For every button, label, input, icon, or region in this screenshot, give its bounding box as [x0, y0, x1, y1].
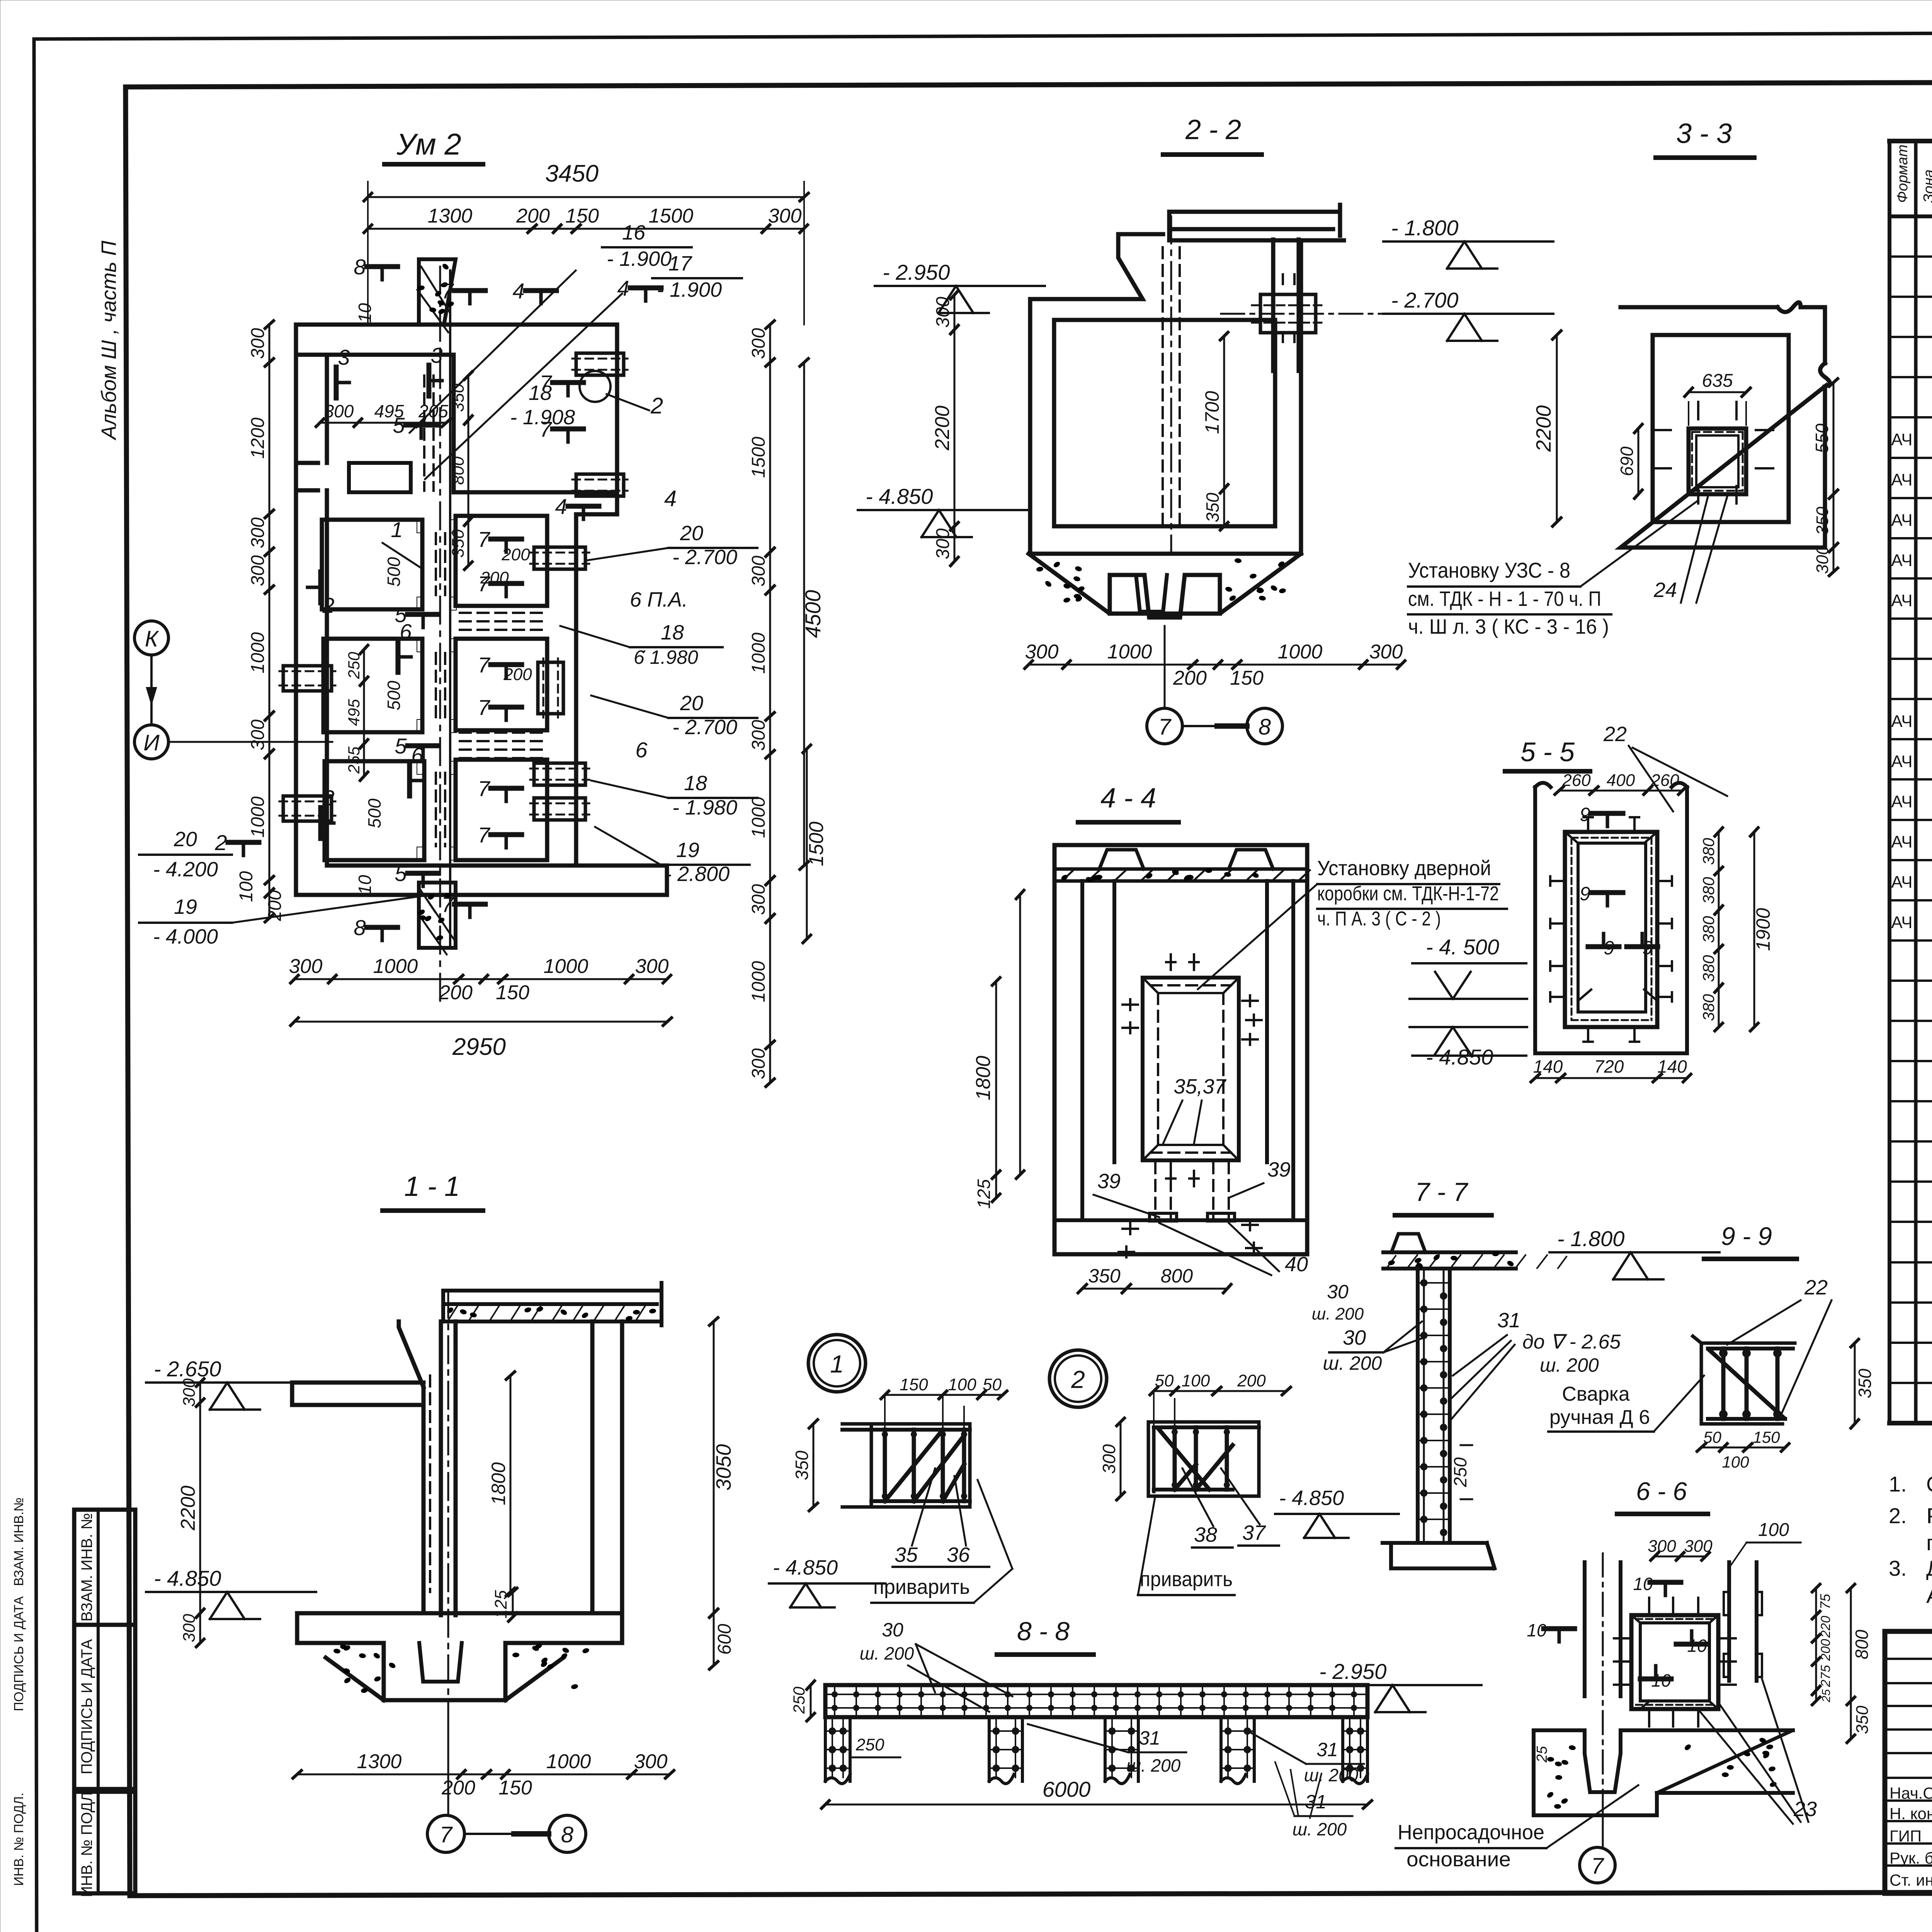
4-4 anchor dashed below	[1150, 1162, 1235, 1221]
4-4 door frame dashed	[1143, 978, 1239, 1160]
plan interior dims/labels	[316, 372, 532, 828]
detail 2 cage	[1148, 1422, 1259, 1496]
svg-text:300: 300	[748, 720, 769, 751]
svg-text:1000: 1000	[748, 797, 769, 838]
4-4 outer box	[1054, 845, 1307, 1254]
svg-text:2950: 2950	[452, 1034, 506, 1060]
svg-text:1000: 1000	[248, 796, 268, 838]
svg-text:36: 36	[947, 1543, 970, 1566]
svg-text:- 1.900: - 1.900	[657, 278, 722, 301]
svg-text:3450: 3450	[545, 160, 599, 187]
detail 2 labels	[1138, 1468, 1279, 1595]
svg-text:5: 5	[395, 734, 407, 758]
svg-text:350: 350	[449, 383, 468, 412]
svg-text:8: 8	[354, 915, 366, 940]
svg-text:10: 10	[1633, 1574, 1653, 1594]
8-8 wall stubs below	[825, 1717, 1367, 1784]
svg-text:2 - 2: 2 - 2	[1185, 114, 1241, 145]
svg-text:6000: 6000	[1043, 1777, 1091, 1801]
svg-text:1700: 1700	[1201, 391, 1223, 434]
svg-text:100: 100	[236, 871, 257, 902]
svg-text:1800: 1800	[972, 1056, 995, 1100]
svg-text:100: 100	[1758, 1520, 1789, 1540]
svg-text:Ум 2: Ум 2	[396, 127, 461, 161]
svg-text:6: 6	[400, 619, 412, 644]
svg-text:255: 255	[345, 746, 363, 774]
svg-text:10: 10	[355, 875, 375, 895]
9-9 labels	[1548, 1276, 1832, 1432]
table rows	[1891, 225, 1932, 1221]
svg-text:20: 20	[680, 692, 703, 715]
signature column texts	[1889, 1784, 1932, 1889]
svg-text:2200: 2200	[177, 1486, 199, 1531]
detail circle 1	[808, 1335, 866, 1392]
svg-text:- 1.900: - 1.900	[607, 247, 672, 270]
svg-text:16: 16	[622, 221, 646, 244]
svg-text:150: 150	[1753, 1428, 1780, 1446]
svg-text:300: 300	[248, 328, 268, 359]
svg-text:300: 300	[748, 1048, 769, 1079]
svg-text:7: 7	[441, 892, 454, 917]
svg-text:19: 19	[676, 838, 699, 862]
svg-text:300: 300	[748, 328, 769, 359]
svg-text:10: 10	[1527, 1620, 1547, 1640]
svg-text:ш. 200: ш. 200	[1540, 1354, 1599, 1376]
svg-text:300: 300	[933, 528, 953, 559]
svg-text:7: 7	[441, 279, 454, 303]
svg-text:- 4. 500: - 4. 500	[1426, 935, 1499, 959]
specification table	[1889, 141, 1932, 1423]
svg-text:300: 300	[324, 401, 354, 421]
svg-text:22: 22	[1603, 723, 1627, 746]
svg-text:150: 150	[565, 205, 599, 227]
1-1 foundation block	[326, 1643, 590, 1700]
svg-text:250: 250	[345, 651, 363, 679]
svg-text:ш. 200: ш. 200	[860, 1643, 914, 1663]
svg-text:4: 4	[664, 486, 677, 511]
detail 1 cage	[842, 1424, 970, 1507]
1-1 door dashed	[423, 1291, 448, 1700]
svg-text:9: 9	[1580, 804, 1590, 825]
8-8 dims & labels	[790, 1619, 1481, 1839]
svg-text:приварить: приварить	[873, 1575, 970, 1599]
6-6 dims	[1648, 1520, 1872, 1743]
svg-text:ИНВ. № ПОДЛ.: ИНВ. № ПОДЛ.	[12, 1793, 26, 1886]
svg-text:250: 250	[790, 1686, 808, 1714]
2-2 foundation	[1029, 554, 1301, 617]
svg-text:приварить: приварить	[1140, 1568, 1233, 1591]
svg-text:5 - 5: 5 - 5	[1520, 737, 1575, 767]
plan top dimensions	[364, 160, 808, 325]
svg-text:- 4.850: - 4.850	[1426, 1045, 1493, 1069]
detail 1 labels	[769, 1468, 1012, 1607]
svg-text:7: 7	[478, 776, 490, 801]
9-9 cage	[1693, 1336, 1795, 1424]
svg-text:50: 50	[983, 1375, 1002, 1394]
svg-text:380: 380	[1699, 916, 1718, 943]
plan section marks	[308, 255, 661, 940]
svg-text:350: 350	[1202, 493, 1223, 522]
plan outline walls	[296, 325, 667, 895]
svg-text:ш. 200: ш. 200	[1323, 1352, 1382, 1374]
svg-text:Зона: Зона	[1921, 169, 1932, 203]
svg-text:1300: 1300	[357, 1750, 402, 1773]
svg-text:380: 380	[1699, 955, 1718, 982]
svg-text:АЧ: АЧ	[1891, 471, 1912, 490]
svg-text:1000: 1000	[248, 632, 268, 673]
svg-text:- 4.850: - 4.850	[1279, 1486, 1344, 1510]
svg-text:75: 75	[1817, 1594, 1833, 1609]
svg-text:1000: 1000	[1278, 641, 1323, 663]
4-4 frame tick hooks	[1119, 954, 1262, 1257]
5-5 outer walls	[1535, 783, 1687, 1053]
svg-text:1000: 1000	[544, 955, 588, 978]
6-6 frame anchors	[1614, 1598, 1736, 1726]
svg-text:7: 7	[478, 653, 490, 677]
svg-text:ш. 200: ш. 200	[1126, 1755, 1181, 1776]
svg-text:300: 300	[248, 555, 268, 586]
svg-text:К: К	[145, 626, 159, 651]
svg-text:Формат: Формат	[1895, 145, 1911, 203]
svg-text:300: 300	[289, 955, 323, 978]
svg-text:100: 100	[1182, 1371, 1210, 1390]
svg-text:800: 800	[1852, 1629, 1872, 1659]
svg-text:4: 4	[617, 276, 629, 300]
4-4 labels	[1094, 1075, 1308, 1276]
svg-text:8: 8	[1259, 714, 1271, 740]
plan leader labels right	[410, 221, 757, 886]
7-7 slab + wall	[1383, 1234, 1566, 1543]
plan left dimension chain	[236, 321, 285, 922]
svg-text:500: 500	[384, 557, 404, 587]
svg-text:300: 300	[634, 1750, 668, 1773]
svg-text:260: 260	[1650, 771, 1679, 790]
svg-text:ч. Ш л. 3 ( КС - 3 - 16 ): ч. Ш л. 3 ( КС - 3 - 16 )	[1408, 615, 1609, 638]
svg-text:1000: 1000	[748, 633, 769, 674]
svg-text:10: 10	[1651, 1670, 1671, 1690]
svg-text:1300: 1300	[428, 205, 473, 227]
5-5 section 9 marks	[1580, 804, 1658, 959]
svg-text:АЧ: АЧ	[1891, 833, 1912, 852]
svg-text:Непросадочное: Непросадочное	[1398, 1821, 1544, 1844]
svg-text:6 - 6: 6 - 6	[1636, 1477, 1687, 1505]
svg-text:100: 100	[1722, 1453, 1749, 1471]
4-4 inner wall lines	[1054, 881, 1307, 1220]
plan rooms	[322, 463, 547, 860]
svg-text:380: 380	[1699, 877, 1718, 904]
3-3 outer walls	[1621, 303, 1830, 548]
svg-text:31: 31	[1497, 1309, 1520, 1332]
svg-text:380: 380	[1699, 838, 1718, 865]
6-6 label 23	[1700, 1679, 1817, 1824]
svg-text:до ∇ - 2.65: до ∇ - 2.65	[1522, 1331, 1621, 1353]
svg-text:19: 19	[174, 895, 197, 918]
svg-text:7: 7	[539, 371, 552, 395]
5-5 side anchor ticks	[1550, 817, 1672, 1042]
svg-text:9: 9	[1604, 937, 1614, 959]
svg-text:250: 250	[1450, 1457, 1470, 1487]
svg-text:6̇ 1.980: 6̇ 1.980	[634, 646, 698, 668]
svg-text:1500: 1500	[748, 437, 769, 478]
1-1 dims	[177, 1318, 735, 1799]
svg-text:2: 2	[1071, 1366, 1085, 1393]
svg-text:150: 150	[1230, 667, 1264, 689]
svg-text:- 4.850: - 4.850	[773, 1556, 838, 1579]
svg-text:АЧ: АЧ	[1891, 511, 1912, 530]
2-2 right embed detail	[1221, 274, 1530, 342]
7-7 footing	[1383, 1543, 1495, 1568]
plan center axis	[439, 267, 441, 1005]
svg-text:275: 275	[1818, 1665, 1833, 1687]
5-5 leader 22	[1603, 723, 1727, 811]
svg-text:300: 300	[1648, 1537, 1676, 1556]
svg-text:350: 350	[449, 529, 468, 558]
svg-text:4 - 4: 4 - 4	[1100, 783, 1156, 814]
svg-text:1: 1	[391, 517, 403, 542]
svg-text:140: 140	[1657, 1056, 1687, 1077]
svg-text:18: 18	[661, 621, 684, 644]
svg-text:Рук. бр.: Рук. бр.	[1889, 1849, 1932, 1867]
svg-text:8: 8	[561, 1822, 573, 1847]
plan door jamb thick marks	[417, 520, 456, 860]
svg-text:18: 18	[684, 772, 707, 795]
svg-text:коробки см. ТДК-Н-1-72: коробки см. ТДК-Н-1-72	[1317, 883, 1499, 905]
svg-text:АЧ: АЧ	[1891, 913, 1912, 932]
svg-text:39: 39	[1267, 1158, 1291, 1181]
svg-text:7 - 7: 7 - 7	[1415, 1177, 1468, 1207]
svg-text:6: 6	[635, 738, 648, 762]
svg-text:7: 7	[478, 823, 490, 847]
svg-text:150: 150	[900, 1375, 928, 1394]
svg-text:200: 200	[441, 1777, 475, 1799]
svg-text:300: 300	[1025, 641, 1059, 663]
svg-text:550: 550	[1812, 423, 1832, 453]
svg-text:3.: 3.	[1889, 1556, 1907, 1580]
svg-text:125: 125	[974, 1179, 994, 1209]
svg-text:см. ТДК - Н - 1 - 70 ч. П: см. ТДК - Н - 1 - 70 ч. П	[1408, 587, 1601, 611]
svg-text:7: 7	[1591, 1854, 1605, 1879]
2-2 dimensions	[931, 291, 1405, 689]
2-2 axis bubbles	[1147, 626, 1282, 744]
svg-text:7: 7	[539, 417, 552, 441]
svg-text:9 - 9: 9 - 9	[1721, 1222, 1772, 1250]
svg-text:690: 690	[1617, 446, 1637, 476]
title block	[1885, 1631, 1932, 1893]
svg-text:- 4.000: - 4.000	[153, 925, 218, 948]
6-6 axis bubble 7	[1580, 1847, 1615, 1883]
svg-text:350: 350	[792, 1451, 812, 1480]
6-6 foundation	[1534, 1730, 1793, 1815]
section 2-2 walls	[1030, 205, 1344, 554]
svg-text:3: 3	[322, 786, 334, 810]
svg-text:1.: 1.	[1889, 1472, 1907, 1496]
7-7 labels	[1312, 1281, 1621, 1499]
svg-text:2200: 2200	[931, 406, 954, 451]
svg-text:ГИП: ГИП	[1889, 1827, 1922, 1845]
svg-text:- 2.700: - 2.700	[1391, 288, 1458, 312]
svg-text:500: 500	[364, 798, 384, 828]
svg-text:500: 500	[384, 680, 404, 710]
svg-text:260: 260	[1562, 771, 1591, 790]
svg-text:4: 4	[512, 279, 524, 303]
plan wall sleeves (embedded pipes)	[279, 353, 628, 821]
svg-text:1000: 1000	[546, 1750, 591, 1773]
svg-text:ВЗАМ. ИНВ. №: ВЗАМ. ИНВ. №	[78, 1513, 95, 1621]
svg-text:1200: 1200	[248, 417, 268, 459]
nonsubsiding base label	[1396, 1785, 1638, 1871]
1-1 axis bubbles	[427, 1700, 586, 1852]
svg-text:АЧ: АЧ	[1891, 752, 1912, 771]
svg-text:25: 25	[1534, 1746, 1550, 1763]
axis bubbles K I	[134, 621, 332, 759]
svg-text:- 4.850: - 4.850	[866, 484, 933, 509]
svg-text:39: 39	[1097, 1170, 1121, 1193]
svg-text:600: 600	[714, 1624, 735, 1655]
svg-text:Арматуры стен до бетонирова: Арматуры стен до бетонирования.	[1926, 1583, 1932, 1607]
svg-text:1000: 1000	[748, 961, 769, 1002]
svg-text:проемов см. ТДК-Н-1-72 ч. П: проемов см. ТДК-Н-1-72 ч. П л.3 ( с - 2 …	[1926, 1531, 1932, 1555]
svg-text:300: 300	[1369, 641, 1403, 663]
svg-text:9: 9	[1580, 883, 1590, 905]
4-4 elevations right	[1410, 935, 1527, 1069]
svg-text:100: 100	[948, 1375, 976, 1394]
svg-text:40: 40	[1285, 1253, 1308, 1276]
svg-text:7: 7	[440, 1822, 453, 1847]
svg-text:ш. 200: ш. 200	[1304, 1765, 1359, 1785]
svg-text:- 1.980: - 1.980	[672, 796, 737, 819]
svg-text:200: 200	[516, 205, 550, 227]
svg-text:АЧ: АЧ	[1891, 551, 1912, 570]
svg-text:1000: 1000	[373, 955, 418, 978]
svg-text:Нач.ОТЭП: Нач.ОТЭП	[1889, 1784, 1932, 1802]
svg-text:7: 7	[478, 571, 490, 596]
detail circle 2	[1049, 1350, 1107, 1407]
svg-text:2200: 2200	[1532, 405, 1555, 452]
svg-text:17: 17	[668, 252, 692, 275]
1-1 walls	[292, 1321, 622, 1643]
3-3 embedded frame	[1653, 402, 1773, 503]
detail 2 dims	[1099, 1371, 1291, 1500]
svg-text:250: 250	[855, 1735, 884, 1754]
svg-text:2: 2	[214, 830, 227, 855]
svg-text:10: 10	[355, 303, 375, 323]
notes list	[1889, 1472, 1932, 1607]
svg-text:Дверь устанавливается одновр: Дверь устанавливается одновременно с мон…	[1926, 1556, 1932, 1580]
svg-text:2.: 2.	[1889, 1503, 1907, 1528]
svg-text:300: 300	[1684, 1537, 1713, 1556]
left margin stamp boxes	[74, 1510, 135, 1897]
svg-text:4: 4	[555, 494, 567, 519]
2-2 center door dashed	[1163, 216, 1180, 553]
svg-text:- 4.200: - 4.200	[153, 858, 218, 881]
svg-text:Ст. инж.: Ст. инж.	[1889, 1871, 1932, 1889]
svg-text:1900: 1900	[1752, 908, 1774, 951]
svg-text:ПОДПИСЬ И ДАТА: ПОДПИСЬ И ДАТА	[78, 1639, 95, 1774]
svg-text:- 1.800: - 1.800	[1391, 216, 1458, 240]
svg-text:Н. контр.: Н. контр.	[1889, 1804, 1932, 1823]
svg-text:АЧ: АЧ	[1891, 792, 1912, 811]
svg-text:7: 7	[478, 527, 490, 551]
svg-text:350: 350	[1853, 1706, 1872, 1734]
svg-text:150: 150	[496, 981, 529, 1004]
svg-text:300: 300	[248, 719, 268, 750]
svg-text:800: 800	[1161, 1265, 1193, 1287]
svg-text:200: 200	[1173, 667, 1207, 689]
svg-text:300: 300	[180, 1614, 199, 1642]
svg-text:300: 300	[748, 884, 769, 915]
svg-text:205: 205	[418, 401, 448, 421]
svg-text:Альбом Ш , часть П: Альбом Ш , часть П	[97, 240, 121, 440]
20/-4.200 and 19/-4.000 labels left	[139, 828, 419, 948]
svg-text:6: 6	[411, 743, 423, 767]
7-7 wall rebar dots/rails	[1419, 1271, 1449, 1542]
svg-text:30: 30	[882, 1619, 903, 1641]
svg-text:Сечение 10 - 10 см. лист 44: Сечение 10 - 10 см. лист 44	[1926, 1472, 1932, 1496]
svg-text:3050: 3050	[712, 1444, 735, 1490]
svg-text:3: 3	[430, 343, 442, 367]
svg-text:495: 495	[345, 699, 363, 726]
svg-text:35,37: 35,37	[1173, 1075, 1226, 1098]
svg-text:380: 380	[1699, 994, 1718, 1021]
svg-text:- 2.950: - 2.950	[883, 260, 950, 284]
svg-text:22: 22	[1804, 1276, 1828, 1299]
svg-text:50: 50	[1703, 1428, 1721, 1446]
svg-text:300: 300	[1813, 545, 1832, 574]
svg-text:7: 7	[478, 695, 490, 719]
svg-text:1000: 1000	[1107, 641, 1152, 663]
svg-text:И: И	[143, 730, 160, 755]
svg-text:9: 9	[1642, 937, 1653, 959]
svg-text:- 2.950: - 2.950	[1319, 1659, 1386, 1684]
svg-text:635: 635	[1702, 371, 1733, 391]
svg-text:35: 35	[895, 1543, 918, 1566]
svg-text:ИНВ. № ПОДЛ.: ИНВ. № ПОДЛ.	[78, 1787, 95, 1897]
svg-text:800: 800	[449, 456, 468, 485]
svg-text:3: 3	[338, 345, 350, 369]
svg-text:350: 350	[1088, 1265, 1121, 1287]
svg-text:20: 20	[680, 522, 703, 545]
svg-text:400: 400	[1607, 771, 1635, 790]
svg-text:АЧ: АЧ	[1891, 712, 1912, 731]
svg-text:720: 720	[1594, 1056, 1624, 1077]
svg-text:2: 2	[322, 593, 334, 617]
svg-text:ручная Д 6: ручная Д 6	[1549, 1406, 1650, 1429]
table headers	[1895, 145, 1932, 207]
svg-text:ш. 200: ш. 200	[1293, 1819, 1347, 1839]
svg-text:300: 300	[248, 517, 268, 548]
svg-text:3 - 3: 3 - 3	[1676, 118, 1732, 149]
6-6 column and frame	[1585, 1553, 1762, 1801]
svg-text:200: 200	[1237, 1371, 1266, 1390]
3-3 dims	[1532, 331, 1838, 576]
svg-text:10: 10	[1687, 1636, 1707, 1656]
5-5 dims	[1531, 771, 1774, 1082]
svg-text:АЧ: АЧ	[1891, 430, 1912, 449]
svg-text:150: 150	[498, 1777, 532, 1799]
9-9 dims	[1697, 1339, 1875, 1471]
svg-text:30: 30	[1327, 1281, 1349, 1303]
svg-text:1 - 1: 1 - 1	[404, 1171, 460, 1202]
4-4 dims	[972, 890, 1231, 1293]
svg-text:ч. П А. 3 ( С - 2 ): ч. П А. 3 ( С - 2 )	[1317, 908, 1441, 930]
svg-text:5: 5	[393, 413, 405, 437]
svg-text:37: 37	[1242, 1521, 1266, 1544]
svg-text:300: 300	[768, 205, 802, 227]
4-4 note text	[1198, 857, 1507, 989]
1-1 top slab	[443, 1283, 662, 1325]
svg-text:300: 300	[748, 556, 769, 587]
svg-text:300: 300	[1099, 1444, 1119, 1474]
